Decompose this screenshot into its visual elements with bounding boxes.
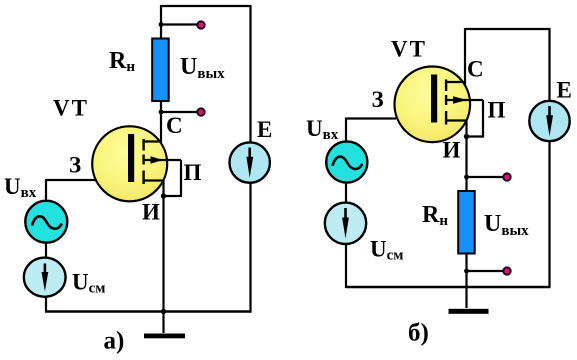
wire top rail a bbox=[161, 5, 251, 7]
wire substrate loop a bbox=[164, 160, 182, 196]
node junction bottom terminal a bbox=[159, 110, 164, 115]
source E a bbox=[230, 142, 270, 182]
svg-text:П: П bbox=[184, 160, 202, 185]
svg-text:С: С bbox=[467, 57, 484, 82]
wire output terminal bottom a bbox=[161, 111, 198, 113]
svg-text:И: И bbox=[443, 138, 461, 163]
ground b bbox=[449, 309, 489, 314]
node source-substrate junction a bbox=[161, 193, 166, 198]
svg-text:VT: VT bbox=[53, 96, 89, 121]
svg-text:И: И bbox=[142, 200, 160, 225]
node junction bottom terminal b bbox=[464, 269, 469, 274]
node output terminal dot bottom a bbox=[197, 108, 204, 115]
transistor VT substrate stub a bbox=[144, 159, 182, 161]
wire drain branch resistor-to-transistor bbox=[160, 100, 162, 142]
wire top rail b bbox=[465, 28, 550, 30]
transistor VT drain stub b bbox=[446, 81, 465, 83]
node rail junction a bbox=[161, 309, 166, 314]
wire bottom rail a bbox=[45, 310, 252, 313]
transistor VT substrate arrow a bbox=[151, 156, 164, 164]
wire drain branch upper bbox=[160, 5, 162, 39]
transistor VT gate bar a bbox=[128, 134, 134, 182]
wire output terminal bottom b bbox=[467, 270, 504, 272]
transistor VT body b bbox=[395, 67, 471, 143]
transistor VT channel segment substrate b bbox=[445, 95, 447, 105]
wire E branch lower b bbox=[548, 141, 550, 288]
source E b bbox=[529, 101, 569, 141]
wire between sources a bbox=[45, 243, 47, 258]
node output terminal dot bottom b bbox=[503, 267, 510, 274]
transistor VT substrate stub b bbox=[446, 99, 483, 101]
node junction top terminal a bbox=[159, 22, 164, 27]
svg-text:П: П bbox=[488, 98, 506, 123]
wire E branch upper b bbox=[548, 28, 550, 102]
arrow inside Uсм a bbox=[44, 264, 47, 278]
wire source lead a bbox=[162, 181, 164, 197]
node output terminal dot top a bbox=[197, 21, 204, 28]
wire below resistor b bbox=[465, 254, 467, 309]
sine wave symbol b bbox=[333, 157, 363, 169]
source Uсм DC a bbox=[24, 258, 66, 297]
wire between sources b bbox=[345, 183, 347, 204]
transistor VT channel segment substrate a bbox=[142, 155, 144, 165]
node source-substrate junction b bbox=[464, 134, 469, 139]
arrow inside E a bbox=[248, 148, 251, 163]
svg-text:б): б) bbox=[408, 320, 429, 347]
sine wave symbol a bbox=[32, 216, 62, 228]
transistor VT channel segment drain b bbox=[445, 80, 447, 92]
node output terminal dot top b bbox=[503, 173, 510, 180]
wire Uсм to rail a bbox=[45, 297, 47, 312]
source Uсм DC b bbox=[325, 203, 366, 244]
wire output terminal top b bbox=[467, 176, 504, 178]
svg-text:С: С bbox=[166, 113, 183, 138]
source Uвх AC b bbox=[326, 141, 367, 182]
wire drain riser b bbox=[464, 28, 466, 85]
wire E branch lower a bbox=[249, 182, 251, 313]
svg-text:Е: Е bbox=[557, 78, 572, 103]
arrow inside E b bbox=[548, 106, 551, 121]
transistor VT substrate arrow b bbox=[453, 96, 467, 104]
source Uвх AC a bbox=[25, 201, 67, 243]
wire input branch upper b bbox=[345, 118, 347, 143]
wire substrate loop b bbox=[467, 100, 484, 137]
wire bottom rail b bbox=[346, 286, 551, 288]
svg-text:VT: VT bbox=[391, 37, 427, 62]
wire Uсм to rail b bbox=[345, 244, 347, 288]
svg-text:З: З bbox=[372, 87, 384, 112]
wire gate lead b bbox=[346, 117, 396, 119]
transistor VT body a bbox=[92, 126, 167, 201]
wire source branch upper b bbox=[465, 137, 467, 192]
resistor Rн a bbox=[152, 39, 169, 102]
transistor VT channel segment source a bbox=[142, 171, 144, 185]
transistor VT source stub b bbox=[446, 119, 467, 121]
transistor VT channel segment drain a bbox=[142, 139, 144, 151]
node junction top terminal b bbox=[464, 175, 469, 180]
transistor VT channel segment source b bbox=[445, 111, 447, 125]
svg-text:З: З bbox=[69, 153, 81, 178]
arrow inside Uсм b bbox=[344, 208, 347, 223]
wire source lead to rail a bbox=[162, 196, 164, 333]
wire input branch upper a bbox=[45, 179, 47, 201]
svg-text:а): а) bbox=[104, 328, 125, 355]
transistor VT drain stub a bbox=[144, 140, 161, 142]
wire E branch upper a bbox=[249, 5, 251, 143]
transistor VT gate bar b bbox=[431, 75, 437, 123]
svg-text:Е: Е bbox=[257, 117, 272, 142]
transistor VT source stub a bbox=[144, 179, 164, 181]
wire gate lead a bbox=[46, 179, 96, 181]
ground a bbox=[144, 334, 185, 339]
resistor Rн b bbox=[458, 191, 475, 254]
wire output terminal top a bbox=[161, 23, 198, 25]
wire source lead b bbox=[465, 121, 467, 137]
